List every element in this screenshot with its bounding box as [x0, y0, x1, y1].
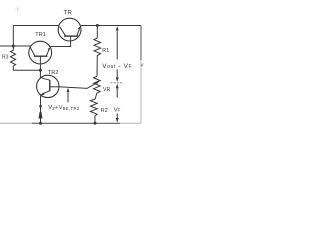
node junction output rail / R1: [96, 24, 99, 27]
wire TR2 emitter down to rail: [40, 95, 42, 123]
wire right edge drop: [140, 26, 142, 61]
node junction input rail / R3: [12, 45, 15, 48]
wire TR1 emitter to TR base: [50, 41, 70, 47]
node junction R2 / bottom rail: [94, 122, 97, 125]
svg-text:VZ+VBE,TR2: VZ+VBE,TR2: [48, 105, 80, 111]
potentiometer VR: [94, 76, 101, 99]
wire R3 bottom to TR1 base junction: [13, 66, 40, 70]
svg-text:VR: VR: [103, 87, 110, 93]
transistor TR: [58, 18, 81, 41]
svg-text:Vout - VF: Vout - VF: [102, 63, 132, 70]
annotation arrow Vz+VBE to TR2 base wire: [67, 91, 69, 103]
svg-text:R1: R1: [102, 48, 109, 54]
svg-text:TR2: TR2: [48, 70, 59, 76]
dimension line Vout-VF (top rail to wiper level): [116, 31, 118, 77]
wire top-left to TR collector: [13, 25, 58, 27]
wire TR2 base to VR wiper arrow: [59, 87, 87, 89]
node junction TR1 base / R3: [39, 69, 42, 72]
transistor TR1: [29, 41, 52, 70]
wire TR1 base lead: [39, 56, 41, 70]
wire bottom rail: [0, 122, 32, 124]
svg-text:R2: R2: [101, 108, 108, 114]
faint plus mark top-left: [15, 7, 20, 12]
dimension line VF (wiper level to bottom rail): [116, 89, 118, 119]
diode zener D (small marks on emitter wire): [39, 105, 42, 108]
resistor R2: [90, 99, 97, 123]
wire TR2 base lead: [50, 86, 59, 88]
boundary tick (wiper level): [111, 82, 123, 84]
wire input rail left: [0, 45, 31, 47]
node junction TR2 emitter / bottom rail: [39, 122, 42, 125]
transistor TR2 (mirrored, base right): [37, 70, 59, 97]
resistor R1: [94, 26, 101, 77]
wire TR2 collector lead: [39, 70, 41, 78]
wire TR emitter to output rail: [81, 25, 141, 27]
wire TR base lead: [70, 36, 72, 41]
svg-text:TR: TR: [64, 10, 73, 17]
svg-text:TR1: TR1: [35, 32, 46, 38]
resistor R3: [10, 46, 15, 66]
wire input riser: [12, 26, 14, 47]
svg-text:R3: R3: [2, 54, 9, 60]
